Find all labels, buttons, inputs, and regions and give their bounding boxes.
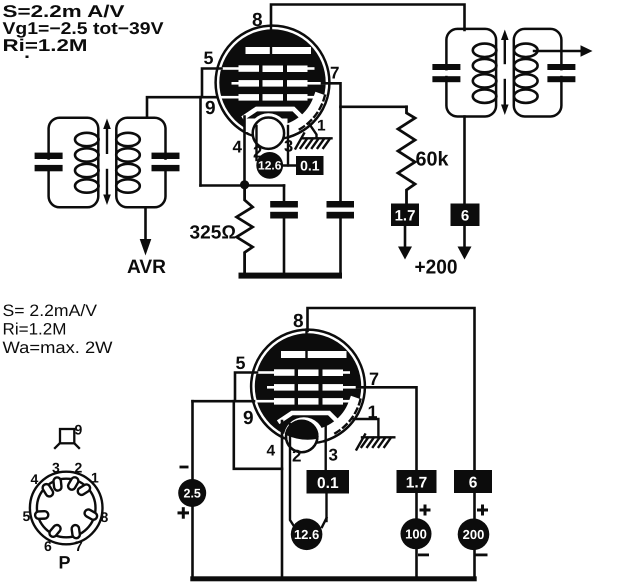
plus sign 200 — [477, 505, 488, 516]
svg-text:5: 5 — [236, 353, 246, 373]
svg-text:4: 4 — [267, 443, 276, 460]
resistor 60k — [398, 107, 415, 204]
socket inner circle — [37, 479, 96, 538]
wire junction row — [201, 184, 285, 187]
marker box 1.7 (top) — [391, 204, 419, 227]
marker box 6 (bottom) — [454, 470, 492, 493]
arrow below 6 — [458, 226, 472, 260]
svg-text:200: 200 — [463, 527, 485, 542]
wire T1 secondary top to grid node — [147, 97, 220, 118]
socket top-cap square — [55, 429, 79, 448]
T2 tuning arrow down — [501, 80, 509, 115]
wire pin1 to ground bottom — [354, 419, 379, 437]
wire pin7 right bottom tube — [357, 387, 417, 470]
svg-text:9: 9 — [205, 98, 216, 119]
wire pin4 cathode down — [243, 117, 246, 186]
svg-text:8: 8 — [101, 509, 109, 525]
transformer T1 secondary winding L2 — [116, 133, 140, 193]
marker box 0.1 (top) — [296, 156, 324, 175]
svg-text:+200: +200 — [415, 257, 458, 279]
bottom bus bar (bottom circuit) — [190, 576, 476, 581]
svg-text:Ri=1.2M: Ri=1.2M — [3, 36, 88, 55]
transformer T2 secondary winding L4 — [514, 44, 538, 103]
minus sign 100 — [418, 554, 429, 557]
marker box 1.7 (bottom) — [397, 470, 437, 493]
svg-text:6: 6 — [44, 538, 52, 554]
wire pin5 bracket bottom — [235, 373, 257, 401]
bottom bus bar (top circuit) — [239, 273, 343, 279]
minus sign 2.5 — [180, 466, 189, 469]
capacitor C5 (T2 left) — [432, 64, 460, 82]
wire grid node down — [199, 97, 202, 185]
socket outer circle — [30, 472, 103, 545]
capacitor C3 (cathode) — [270, 186, 298, 273]
capacitor C4 (screen) — [327, 201, 355, 273]
svg-text:1: 1 — [317, 118, 326, 135]
svg-text:1: 1 — [91, 470, 99, 486]
junction dot — [240, 180, 249, 189]
wire 2.5 chain — [191, 401, 194, 480]
wire pin4 cathode down to bus — [281, 421, 284, 577]
transformer T1 primary loop — [49, 118, 99, 208]
capacitor C2 (T1 right) — [152, 153, 180, 172]
resistor 325 ohm — [237, 189, 253, 273]
wire pin5 bracket — [202, 69, 222, 97]
wire node down to pin4 row — [234, 401, 282, 469]
transformer T2 primary winding L3 — [473, 44, 497, 103]
T1 tuning arrow up — [103, 119, 111, 153]
plus sign 100 — [420, 505, 431, 516]
svg-text:9: 9 — [243, 408, 254, 429]
transformer T1 secondary loop — [116, 118, 165, 208]
svg-text:325Ω: 325Ω — [190, 223, 237, 244]
arrow below 1.7 — [398, 226, 412, 260]
svg-text:12.6: 12.6 — [294, 527, 319, 542]
marker 100 — [401, 518, 432, 549]
ground (top tube) — [296, 134, 332, 149]
wire T1 secondary bottom to AVR — [144, 207, 147, 241]
arrow AVR — [140, 239, 152, 256]
svg-text:S= 2.2mA/V: S= 2.2mA/V — [3, 302, 98, 320]
T1 tuning arrow down — [103, 170, 111, 205]
svg-text:7: 7 — [330, 64, 339, 83]
svg-text:P: P — [59, 553, 71, 573]
svg-text:1.7: 1.7 — [395, 208, 416, 225]
svg-text:3: 3 — [329, 446, 338, 465]
heater lead pin2 bottom tube — [290, 424, 295, 527]
socket pins — [35, 476, 98, 539]
svg-text:4: 4 — [233, 138, 243, 157]
svg-text:3: 3 — [52, 460, 60, 476]
transformer T2 secondary loop — [514, 29, 562, 117]
marker box 6 (top) — [451, 204, 480, 227]
heater lead pin3 top tube — [287, 126, 289, 166]
marker 2.5 — [178, 479, 206, 507]
svg-text:6: 6 — [461, 208, 469, 225]
marker 12.6 (top) — [256, 152, 283, 179]
transformer T1 primary winding L1 — [75, 133, 99, 193]
heater lead pin3 bottom tube — [325, 424, 327, 470]
svg-text:Wa=max. 2W: Wa=max. 2W — [3, 339, 113, 357]
svg-text:7: 7 — [75, 538, 83, 554]
plus sign 2.5 — [178, 507, 190, 519]
wire pin7 right — [322, 83, 341, 201]
marker box 0.1 (bottom) — [325, 494, 327, 522]
wire 6 to 200 — [473, 493, 476, 519]
svg-text:Ri=1.2M: Ri=1.2M — [3, 321, 67, 339]
svg-text:9: 9 — [75, 422, 83, 438]
svg-text:2: 2 — [292, 447, 301, 466]
wire pin1 to ground — [309, 124, 317, 138]
marker 200 — [458, 519, 490, 551]
capacitor C1 (T1 left) — [35, 153, 63, 172]
svg-text:4: 4 — [31, 471, 39, 487]
wire pin7 branch to 60k — [341, 106, 407, 109]
T2 tuning arrow up — [501, 30, 509, 64]
wire grid-in bottom — [193, 400, 255, 403]
svg-text:100: 100 — [405, 527, 427, 542]
minus sign 200 — [476, 554, 488, 557]
tube V2 — [251, 330, 365, 458]
svg-text:5: 5 — [204, 48, 214, 68]
svg-text:0.1: 0.1 — [317, 475, 339, 492]
wire 1.7 to 100 — [415, 493, 418, 519]
ground (bottom tube) — [357, 435, 395, 450]
svg-text:2: 2 — [75, 460, 83, 476]
heater lead pin2 top tube — [255, 126, 257, 160]
svg-text:8: 8 — [293, 311, 304, 332]
wire T2 bottom to 6 box — [463, 117, 466, 204]
svg-text:12.6: 12.6 — [258, 159, 282, 173]
stray dot — [26, 56, 29, 59]
marker 12.6 (bottom) — [291, 519, 323, 551]
output arrow wire — [534, 45, 593, 57]
capacitor C6 (T2 right) — [547, 64, 575, 82]
wire pin8 top to transformer T2 — [271, 5, 465, 31]
svg-text:60k: 60k — [416, 149, 450, 171]
svg-text:2.5: 2.5 — [184, 487, 201, 501]
svg-text:5: 5 — [23, 508, 31, 524]
svg-text:1.7: 1.7 — [406, 475, 428, 492]
transformer T2 primary loop — [446, 29, 496, 117]
svg-text:6: 6 — [469, 475, 478, 492]
wire pin8 bottom tube — [308, 308, 475, 470]
svg-text:0.1: 0.1 — [300, 158, 320, 174]
wire 12.6 to 0.1 — [281, 164, 297, 166]
svg-text:AVR: AVR — [127, 256, 166, 278]
tube V1 — [216, 26, 330, 154]
